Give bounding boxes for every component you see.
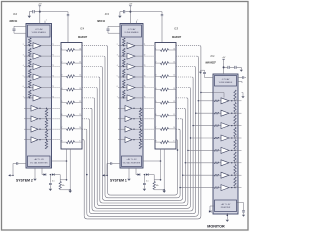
control sub-block top of IC3 [122, 25, 142, 37]
svg-text:6: 6 [117, 86, 118, 88]
svg-text:13: 13 [79, 88, 81, 90]
op-amp row 1 of IC3 [120, 45, 123, 47]
op-amp row 10 of IC2 [26, 139, 31, 141]
svg-text:MAX367: MAX367 [78, 37, 88, 39]
feedback resistor row 9 [234, 177, 236, 186]
op-amp row 6 of IC2 [26, 97, 29, 99]
svg-text:MONITOR: MONITOR [207, 224, 225, 228]
feedback resistor row 5 [234, 127, 236, 136]
monitor bottom ground [226, 213, 228, 220]
+5V power rail above IC2 [39, 6, 41, 9]
svg-text:MXC11: MXC11 [97, 20, 105, 23]
bus wire M7 [176, 107, 184, 109]
load resistor SYSTEM 2 [59, 175, 61, 182]
resistor row 3 of IC5 [155, 75, 161, 77]
svg-text:14: 14 [173, 75, 175, 77]
bus wire L6 [82, 97, 93, 99]
monitor op-amp row 7 [213, 162, 214, 164]
output pin row 8 [235, 174, 242, 176]
svg-text:11: 11 [173, 114, 175, 116]
junction wires to network grounds [60, 179, 66, 181]
output protection diodes SYSTEM 2 [41, 168, 43, 175]
monitor op-amp row 5 [213, 137, 214, 139]
op-amp row 8 of IC3 [120, 118, 125, 120]
monitor op-amp row 4 [213, 125, 214, 127]
op-amp row 2 of IC3 [120, 55, 123, 57]
input cap cluster left of IC1 [205, 77, 214, 79]
svg-text:+AV TL -8V: +AV TL -8V [126, 158, 137, 161]
monitor op-amp row 1 [213, 92, 224, 94]
feedback resistor row 8 [234, 164, 236, 173]
output pin row 7 [235, 162, 242, 164]
svg-text:4: 4 [117, 65, 118, 67]
output pin row 2 [235, 100, 242, 102]
monitor bottom sub-block [215, 200, 237, 212]
op-amp row 4 of IC3 [120, 76, 123, 78]
resistor row 8 of IC5 [155, 141, 161, 143]
resistor row 1 of IC4 [61, 49, 67, 51]
op-amp row 10 of IC3 [120, 139, 125, 141]
control sub-block bottom of IC2 [28, 156, 51, 167]
svg-text:15: 15 [173, 61, 175, 63]
wire +5V to resistor network [40, 11, 68, 13]
svg-text:14: 14 [79, 75, 81, 77]
caps right of monitor top [238, 77, 242, 79]
op-amp row 9 of IC3 [120, 128, 125, 130]
op-amp row 4 of IC2 [26, 76, 29, 78]
svg-text:7: 7 [23, 96, 24, 98]
output protection diodes SYSTEM 1 [135, 168, 137, 175]
decoupling capacitor C-IC2b [67, 14, 69, 15]
monitor input junction dots [201, 92, 213, 94]
bus wire L4 [82, 76, 99, 78]
svg-text:2: 2 [117, 44, 118, 46]
bus wire M10 [175, 139, 177, 141]
resistor row 2 of IC4 [61, 62, 67, 64]
svg-text:IC2: IC2 [13, 12, 18, 16]
svg-text:SYSTEM 2: SYSTEM 2 [16, 179, 33, 183]
op-amp row 7 of IC3 [120, 107, 125, 109]
filter capacitor SYSTEM 1 [143, 175, 145, 183]
monitor op-amp row 8 [213, 174, 214, 176]
op-amp row 6 of IC3 [120, 97, 123, 99]
bus wire M6 [176, 97, 187, 99]
svg-text:5: 5 [117, 76, 118, 78]
op-amp array IC IC2 (MXC11) [26, 24, 52, 169]
output pin row 4 [235, 125, 242, 127]
svg-text:VIC TAIL INVERTER: VIC TAIL INVERTER [30, 161, 48, 164]
output pin row 6 [235, 149, 242, 151]
svg-text:4: 4 [23, 65, 24, 67]
resistor row 4 of IC5 [155, 89, 161, 91]
svg-text:13: 13 [173, 88, 175, 90]
op-amp row 2 of IC2 [26, 55, 29, 57]
svg-text:10: 10 [236, 186, 238, 188]
op-amp row 3 of IC2 [26, 66, 29, 68]
load resistor SYSTEM 1 [153, 175, 155, 182]
svg-text:10k: 10k [156, 185, 159, 187]
top stub pin of IC2 [44, 21, 46, 24]
resistor network IC5 (MAX367) [155, 43, 176, 150]
resistor row 4 of IC4 [61, 89, 67, 91]
monitor top sub-block [215, 76, 237, 87]
svg-text:0.1: 0.1 [146, 180, 149, 182]
svg-text:MAX4257: MAX4257 [206, 62, 217, 65]
monitor right-side top pin ground [242, 92, 244, 94]
bus wire L9 [82, 128, 86, 130]
svg-text:IC4: IC4 [80, 27, 85, 30]
resistor row 5 of IC5 [155, 102, 161, 104]
input coupling caps at IC2 top [14, 25, 26, 27]
input feed lines into IC4 [51, 45, 62, 47]
resistor row 7 of IC4 [61, 128, 67, 130]
op-amp row 7 of IC2 [26, 107, 31, 109]
svg-text:SYSTEM 1: SYSTEM 1 [110, 179, 127, 183]
enable wire IC2 to network [52, 160, 67, 162]
resistor row 5 of IC4 [61, 102, 67, 104]
svg-text:16: 16 [79, 48, 81, 50]
svg-text:-8 TL/AV: -8 TL/AV [35, 28, 43, 31]
output pin row 9 [235, 187, 242, 189]
svg-text:6: 6 [23, 86, 24, 88]
svg-text:VLINE ENABLE: VLINE ENABLE [124, 31, 139, 34]
svg-text:-8 TL/AV: -8 TL/AV [222, 78, 230, 81]
svg-text:MAX367: MAX367 [172, 37, 182, 39]
feedback resistor row 6 [234, 140, 236, 149]
svg-text:3: 3 [117, 55, 118, 57]
control sub-block top of IC2 [28, 25, 51, 37]
bus wire M4 [176, 76, 192, 78]
resistor row 6 of IC4 [61, 115, 67, 117]
ground below IC2 [34, 168, 36, 179]
svg-text:15: 15 [79, 61, 81, 63]
svg-text:VIC TAIL INVERTER: VIC TAIL INVERTER [123, 161, 141, 164]
svg-text:-8 TL/AV: -8 TL/AV [128, 28, 136, 31]
op-amp row 1 of IC2 [26, 45, 29, 47]
svg-text:MXC11: MXC11 [10, 20, 18, 23]
svg-text:+AV TL -8V: +AV TL -8V [221, 203, 231, 206]
feedback resistor row 2 [234, 90, 236, 99]
svg-text:16: 16 [173, 48, 175, 50]
wire +5V to resistor network [130, 11, 162, 13]
frame border [2, 2, 249, 231]
resistor row 8 of IC4 [61, 141, 67, 143]
bus wire M5 [176, 87, 189, 89]
decoupling capacitor C-IC3b [161, 14, 163, 15]
svg-text:12: 12 [79, 101, 81, 103]
junction wires to network grounds [154, 179, 160, 181]
SYSTEM 2 connector stub [18, 163, 26, 165]
svg-text:5: 5 [23, 76, 24, 78]
svg-text:IC5: IC5 [174, 27, 179, 30]
monitor op-amp row 2 [213, 100, 214, 102]
svg-text:10: 10 [173, 127, 175, 129]
svg-text:0.1: 0.1 [52, 180, 55, 182]
op-amp row 5 of IC2 [26, 87, 29, 89]
ground pins below IC5 [160, 149, 162, 180]
svg-text:12: 12 [173, 101, 175, 103]
ground pins below IC4 [66, 149, 68, 180]
resistor network IC4 (MAX367) [61, 43, 82, 150]
svg-text:INVERTER: INVERTER [221, 207, 231, 209]
feedback resistor row 3 [234, 102, 236, 111]
bypass capacitor C-IC3a [125, 11, 130, 13]
svg-text:VLINE ENABLE: VLINE ENABLE [32, 31, 47, 34]
resistor row 7 of IC5 [155, 128, 161, 130]
bus wire L1 [82, 45, 106, 47]
svg-text:IC1: IC1 [211, 54, 216, 58]
op-amp row 9 of IC2 [26, 128, 31, 130]
feedback resistor row 4 [234, 115, 236, 124]
svg-text:7: 7 [117, 96, 118, 98]
svg-text:3: 3 [23, 55, 24, 57]
svg-text:VLINE ENABLE: VLINE ENABLE [219, 81, 233, 84]
monitor op-amp row 9 [213, 187, 214, 189]
+5V power rail above IC3 [129, 6, 131, 9]
monitor op-amp block IC1 (MAX4257) [213, 74, 238, 214]
op-amp row 3 of IC3 [120, 66, 123, 68]
resistor row 2 of IC5 [155, 62, 161, 64]
op-amp row 8 of IC2 [26, 118, 31, 120]
svg-text:10: 10 [79, 127, 81, 129]
op-amp row 5 of IC3 [120, 87, 123, 89]
op-amp array IC IC3 (MXC11) [120, 24, 143, 169]
output pin row 5 [235, 137, 242, 139]
bypass caps IC1 [224, 66, 228, 68]
control sub-block bottom of IC3 [122, 156, 142, 167]
bus wire L7 [82, 107, 91, 109]
filter capacitor SYSTEM 2 [49, 175, 51, 183]
svg-text:10k: 10k [62, 185, 65, 187]
bypass capacitor C-IC2a [35, 11, 40, 13]
feedback resistor row 7 [234, 152, 236, 161]
bus wire L8 [82, 118, 88, 120]
resistor row 3 of IC4 [61, 75, 67, 77]
top stub pin of IC3 [136, 21, 138, 24]
input coupling caps at IC3 top [108, 25, 120, 27]
bus wire M2 [176, 55, 197, 57]
resistor row 6 of IC5 [155, 115, 161, 117]
resistor row 1 of IC5 [155, 49, 161, 51]
monitor right bottom cap [237, 202, 244, 204]
svg-text:+AV TL -8V: +AV TL -8V [34, 158, 45, 161]
enable wire IC3 to network [143, 160, 161, 162]
bus wire M9 [176, 128, 179, 130]
svg-text:IC3: IC3 [105, 12, 110, 16]
output pin row 3 [235, 112, 242, 114]
monitor bottom diode [210, 205, 215, 207]
input feed lines into IC5 [145, 45, 156, 47]
bus wire M1 [176, 45, 200, 47]
monitor op-amp row 6 [213, 149, 214, 151]
svg-text:11: 11 [79, 114, 81, 116]
+5V power above IC1 [223, 59, 225, 62]
bus wire L10 [82, 139, 83, 141]
bus wire L3 [82, 66, 101, 68]
bus wire M3 [176, 66, 195, 68]
bus wire M8 [176, 118, 182, 120]
svg-text:2: 2 [23, 44, 24, 46]
bus wire L5 [82, 87, 96, 89]
bus wire L2 [82, 55, 104, 57]
ground below IC3 [128, 168, 130, 179]
SYSTEM 1 connector stub [112, 163, 120, 165]
monitor op-amp row 3 [213, 112, 214, 114]
